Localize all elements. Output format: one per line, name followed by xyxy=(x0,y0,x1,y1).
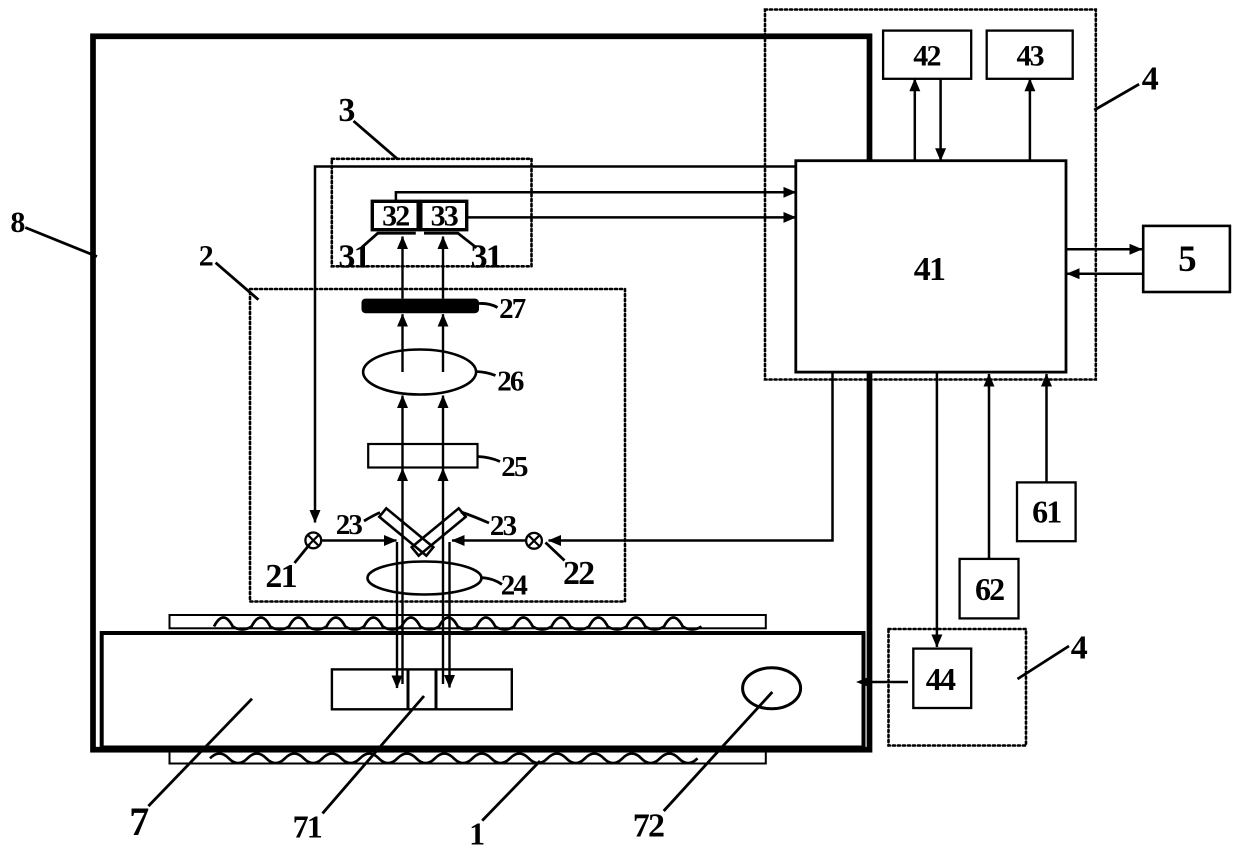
svg-text:33: 33 xyxy=(431,200,458,233)
svg-text:41: 41 xyxy=(914,251,945,288)
svg-text:7: 7 xyxy=(129,799,149,844)
svg-text:31: 31 xyxy=(471,239,502,276)
svg-text:32: 32 xyxy=(382,200,409,233)
svg-text:3: 3 xyxy=(338,92,354,129)
svg-text:62: 62 xyxy=(975,571,1004,607)
svg-text:4: 4 xyxy=(1142,61,1159,98)
svg-text:22: 22 xyxy=(563,555,594,592)
svg-text:4: 4 xyxy=(1071,630,1088,667)
svg-text:31: 31 xyxy=(338,239,369,276)
svg-text:27: 27 xyxy=(499,293,526,325)
svg-text:44: 44 xyxy=(926,661,956,697)
svg-text:72: 72 xyxy=(633,808,664,845)
svg-text:43: 43 xyxy=(1016,40,1043,73)
svg-text:23: 23 xyxy=(490,510,517,542)
svg-text:8: 8 xyxy=(10,206,24,239)
svg-text:26: 26 xyxy=(497,366,524,398)
svg-text:61: 61 xyxy=(1032,494,1061,530)
svg-text:25: 25 xyxy=(501,451,528,483)
svg-text:42: 42 xyxy=(913,40,940,73)
svg-text:1: 1 xyxy=(469,816,484,852)
svg-text:21: 21 xyxy=(265,558,296,595)
svg-text:2: 2 xyxy=(199,240,213,273)
svg-text:71: 71 xyxy=(293,809,322,845)
svg-text:5: 5 xyxy=(1178,239,1196,280)
svg-text:24: 24 xyxy=(501,570,528,602)
svg-text:23: 23 xyxy=(336,509,363,541)
